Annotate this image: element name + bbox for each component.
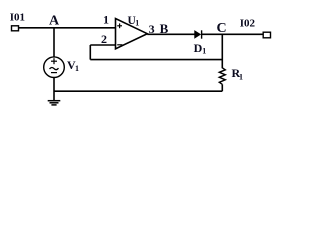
svg-text:B: B [160,21,169,36]
wire resistor to ground return [221,84,223,91]
port I02 [240,18,271,38]
wire feedback horizontal to node C branch [90,59,222,61]
svg-text:1: 1 [202,46,206,55]
wire ground return bottom [54,90,222,92]
svg-text:I01: I01 [10,12,25,24]
svg-text:2: 2 [101,32,107,46]
svg-text:1: 1 [75,64,79,73]
svg-text:1: 1 [135,19,139,28]
svg-text:1: 1 [103,12,109,26]
wire I01 to op-amp pin 1 [19,27,116,29]
wire node A down to V1 [53,28,55,57]
resistor R1 [219,66,243,84]
diode D1 [194,30,207,55]
svg-text:C: C [217,21,227,36]
wire diode to port I02 [202,33,263,35]
op-amp U1 [116,15,148,49]
ground [48,101,61,105]
svg-text:A: A [49,14,60,29]
svg-text:1: 1 [239,72,243,81]
wire op-amp pin 2 stub [90,44,115,46]
wire V1 to ground [53,78,55,101]
wire node C down to resistor [221,34,223,68]
svg-text:I02: I02 [240,18,256,30]
wire feedback vertical [89,45,91,60]
wire op-amp output to diode [147,33,194,35]
voltage source V1 [44,57,79,78]
port I01 [10,12,25,31]
